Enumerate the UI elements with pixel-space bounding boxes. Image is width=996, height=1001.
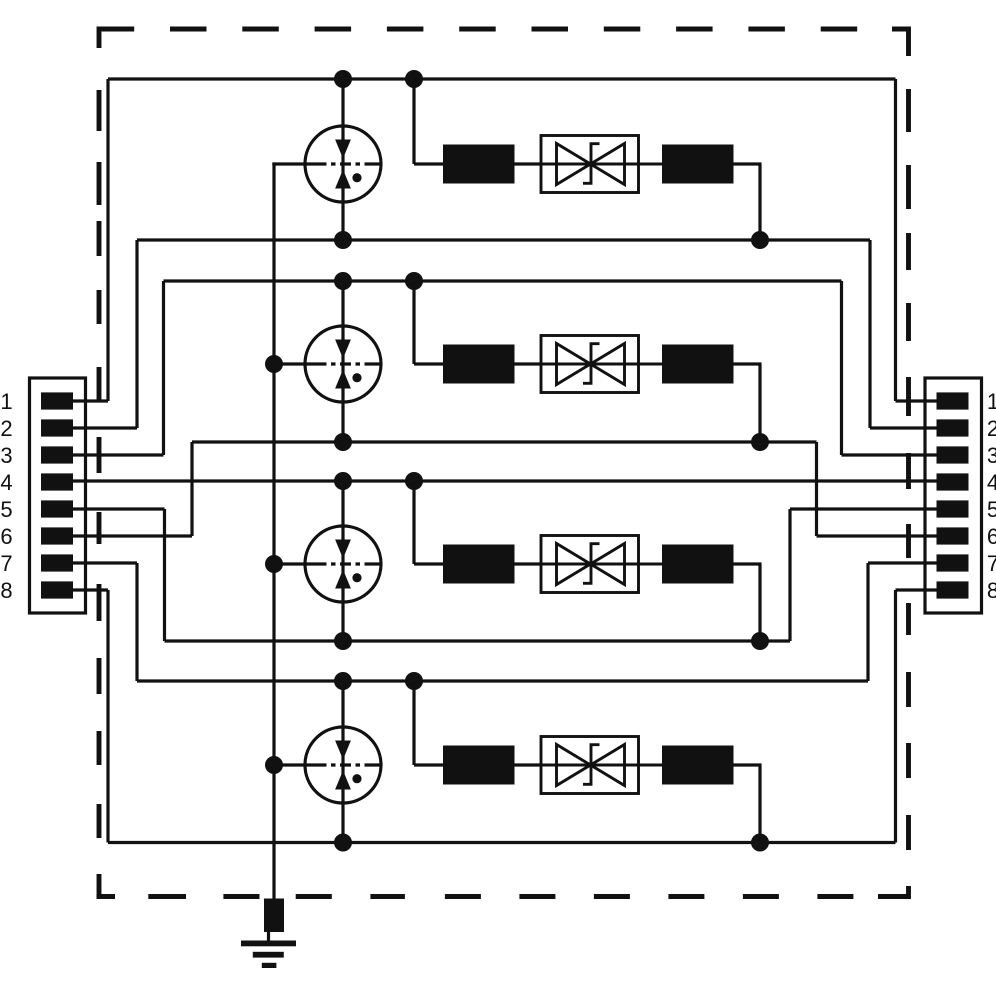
junction top rail / gas tube row 1	[334, 70, 352, 88]
wire series branch horizontal row 1	[414, 162, 443, 165]
resistor R1a (left series impedance)	[443, 145, 515, 184]
wire right pin 2 to rail (horizontal)	[870, 426, 937, 429]
junction top rail / gas tube row 3	[334, 472, 352, 490]
svg-text:1: 1	[987, 389, 996, 414]
resistor R4a (left series impedance)	[443, 746, 515, 785]
junction bottom rail / gas tube row 3	[334, 632, 352, 650]
wire right pin 7 riser (vertical)	[866, 563, 869, 681]
gas discharge tube F1 circle	[305, 126, 381, 202]
wire pair-4 top rail	[137, 679, 868, 682]
wire gas tube vertical row 4	[341, 681, 344, 843]
suppressor diode V1 through-wire	[541, 163, 662, 166]
wire left pin 2 to rail (horizontal)	[73, 426, 137, 429]
left connector pin 7 contact	[41, 554, 73, 571]
suppressor diode V4 box	[541, 737, 639, 794]
suppressor diode V3 right triangle	[591, 544, 625, 585]
wire pair-3 top rail	[73, 479, 937, 482]
wire series branch horizontal row 3	[414, 562, 443, 565]
dashed enclosure border (right)	[906, 89, 911, 850]
junction top rail / series branch row 4	[405, 672, 423, 690]
resistor R1b (right series impedance)	[662, 145, 734, 184]
wire resistor R1a to suppressor	[515, 162, 542, 165]
suppressor diode V1 center electrode with hooks	[583, 144, 600, 184]
junction bottom rail / gas tube row 4	[334, 834, 352, 852]
suppressor diode V2 box	[541, 336, 639, 393]
suppressor diode V1 left triangle	[557, 144, 591, 185]
dashed enclosure border (bottom)	[97, 894, 854, 899]
right connector J2 body	[925, 378, 982, 613]
wire right pin 5 riser (vertical)	[788, 509, 791, 641]
junction earth bus / row 2 electrode	[265, 355, 283, 373]
gas discharge tube F1 lower electrode arrow	[335, 170, 351, 189]
gas discharge tube F1 upper electrode arrow	[335, 140, 351, 159]
right connector pin 6 contact	[937, 527, 969, 544]
ground terminal block (filled rectangle)	[264, 899, 284, 933]
wire resistor R4b to bottom rail	[734, 765, 761, 843]
suppressor diode V4 center electrode with hooks	[583, 745, 600, 785]
junction top rail / gas tube row 4	[334, 672, 352, 690]
suppressor diode V3 box	[541, 536, 639, 593]
left connector pin 3 contact	[41, 446, 73, 463]
svg-text:7: 7	[987, 551, 996, 576]
svg-text:5: 5	[987, 497, 996, 522]
junction bottom rail / gas tube row 1	[334, 231, 352, 249]
gas discharge tube F3 circle	[305, 526, 381, 602]
dashed enclosure border (top)	[98, 27, 858, 32]
wire left pin 6 to rail (horizontal)	[73, 534, 192, 537]
junction bottom rail / series branch row 4	[751, 834, 769, 852]
left connector pin 8 contact	[41, 581, 73, 598]
earth ground symbol bar 2	[253, 952, 284, 958]
svg-text:4: 4	[987, 470, 996, 495]
wire right pin 2 riser (vertical)	[868, 240, 871, 428]
wire gas tube vertical row 3	[341, 481, 344, 641]
suppressor diode V4 left triangle	[557, 745, 591, 786]
wire left pin 1 riser (vertical)	[106, 79, 109, 401]
earth ground symbol bar 1	[241, 941, 296, 947]
wire right pin 3 to rail (horizontal)	[842, 453, 937, 456]
suppressor diode V3 through-wire	[541, 563, 662, 566]
dashed enclosure border (top-right corner)	[892, 29, 909, 56]
wire right pin 7 to rail (horizontal)	[868, 561, 937, 564]
wire right pin 6 to rail (horizontal)	[817, 534, 937, 537]
junction bottom rail / series branch row 2	[751, 433, 769, 451]
wire right pin 5 to rail (horizontal)	[790, 507, 937, 510]
gas discharge tube F2 circle	[305, 326, 381, 402]
wire ground electrode row 1 to earth bus	[272, 162, 306, 165]
wire left pin 8 to rail (horizontal)	[73, 588, 108, 591]
gas discharge tube F4 ground electrode dash-dot line	[307, 763, 381, 766]
gas discharge tube F2 ground electrode dash-dot line	[307, 362, 381, 365]
gas discharge tube F3 ignition-aid dot	[352, 573, 361, 582]
wire ground electrode row 4 to earth bus	[274, 763, 307, 766]
junction top rail / series branch row 1	[405, 70, 423, 88]
wire resistor R2b to bottom rail	[734, 364, 761, 442]
wire right pin 8 to rail (horizontal)	[896, 588, 937, 591]
wire gas tube vertical row 1	[341, 79, 344, 240]
right connector pin 5 contact	[937, 500, 969, 517]
gas discharge tube F2 lower electrode arrow	[335, 370, 351, 389]
junction bottom rail / series branch row 1	[751, 231, 769, 249]
wire pair-1 top rail	[108, 77, 896, 80]
gas discharge tube F3 lower electrode arrow	[335, 570, 351, 589]
right connector pin 7 contact	[937, 554, 969, 571]
suppressor diode V2 through-wire	[541, 363, 662, 366]
junction earth bus / row 3 electrode	[265, 555, 283, 573]
svg-text:4: 4	[0, 470, 12, 495]
wire left pin 8 riser (vertical)	[106, 590, 109, 843]
wire ground electrode row 3 to earth bus	[274, 562, 307, 565]
earth ground symbol bar 3	[262, 963, 277, 968]
left connector pin 2 contact	[41, 419, 73, 436]
wire ground electrode row 2 to earth bus	[274, 362, 307, 365]
svg-text:5: 5	[0, 497, 12, 522]
left connector pin 6 contact	[41, 527, 73, 544]
wire pair-2 top rail	[164, 279, 842, 282]
gas discharge tube F4 circle	[305, 727, 381, 803]
suppressor diode V4 through-wire	[541, 764, 662, 767]
wire left pin 3 riser (vertical)	[162, 281, 165, 455]
gas discharge tube F1 ignition-aid dot	[352, 173, 361, 182]
wire left pin 1 to rail (horizontal)	[73, 399, 108, 402]
wire left pin 3 to rail (horizontal)	[73, 453, 164, 456]
left connector pin 5 contact	[41, 500, 73, 517]
resistor R2a (left series impedance)	[443, 345, 515, 384]
svg-text:7: 7	[0, 551, 12, 576]
wire pair-1 bottom rail	[137, 238, 870, 241]
ground stub	[267, 932, 270, 942]
earth bus top corner to row1 electrode	[272, 162, 275, 165]
left connector pin 1 contact	[41, 392, 73, 409]
gas discharge tube F2 upper electrode arrow	[335, 340, 351, 359]
gas discharge tube F3 ground electrode dash-dot line	[307, 562, 381, 565]
suppressor diode V4 right triangle	[591, 745, 625, 786]
gas discharge tube F3 upper electrode arrow	[335, 540, 351, 559]
svg-text:3: 3	[987, 443, 996, 468]
wire series branch horizontal row 4	[414, 763, 443, 766]
svg-text:8: 8	[987, 578, 996, 603]
left connector J1 body	[30, 378, 86, 613]
wire resistor R1b to bottom rail	[734, 164, 761, 240]
wire pair-4 bottom rail	[108, 841, 896, 844]
dashed enclosure border (left)	[97, 27, 102, 895]
suppressor diode V2 center electrode with hooks	[583, 344, 600, 384]
right connector pin 3 contact	[937, 446, 969, 463]
wire series branch drop row 1	[412, 79, 415, 164]
junction top rail / series branch row 2	[405, 272, 423, 290]
right connector pin 4 contact	[937, 473, 969, 490]
wire left pin 5 riser (vertical)	[163, 509, 166, 641]
wire resistor R3a to suppressor	[515, 562, 542, 565]
svg-text:8: 8	[0, 578, 12, 603]
svg-text:1: 1	[0, 389, 12, 414]
wire pair-2 bottom rail	[192, 440, 817, 443]
gas discharge tube F4 upper electrode arrow	[335, 741, 351, 760]
junction earth bus / row 4 electrode	[265, 756, 283, 774]
gas discharge tube F1 ground electrode dash-dot line	[307, 162, 381, 165]
wire resistor R4a to suppressor	[515, 763, 542, 766]
gas discharge tube F4 lower electrode arrow	[335, 771, 351, 790]
right connector pin 8 contact	[937, 581, 969, 598]
wire left pin 7 riser (vertical)	[135, 563, 138, 681]
gas discharge tube F2 ignition-aid dot	[352, 373, 361, 382]
svg-text:6: 6	[0, 524, 12, 549]
wire series branch horizontal row 2	[414, 362, 443, 365]
wire right pin 6 riser (vertical)	[815, 442, 818, 536]
right connector pin 1 contact	[937, 392, 969, 409]
wire right pin 1 riser (vertical)	[894, 79, 897, 401]
svg-text:2: 2	[987, 416, 996, 441]
svg-text:2: 2	[0, 416, 12, 441]
suppressor diode V2 right triangle	[591, 344, 625, 385]
resistor R2b (right series impedance)	[662, 345, 734, 384]
right connector pin 2 contact	[937, 419, 969, 436]
junction top rail / series branch row 3	[405, 472, 423, 490]
wire left pin 7 to rail (horizontal)	[73, 561, 137, 564]
wire right pin 3 riser (vertical)	[840, 281, 843, 455]
wire series branch drop row 4	[412, 681, 415, 765]
wire gas tube vertical row 2	[341, 281, 344, 442]
left connector pin 4 contact	[41, 473, 73, 490]
wire series branch drop row 2	[412, 281, 415, 364]
wire right pin 1 to rail (horizontal)	[896, 399, 937, 402]
wire resistor R3b to bottom rail	[734, 564, 761, 641]
wire left pin 5 to rail (horizontal)	[73, 507, 165, 510]
wire resistor R2a to suppressor	[515, 362, 542, 365]
resistor R3b (right series impedance)	[662, 545, 734, 584]
svg-text:3: 3	[0, 443, 12, 468]
wire right pin 8 riser (vertical)	[894, 590, 897, 843]
suppressor diode V2 left triangle	[557, 344, 591, 385]
svg-text:6: 6	[987, 524, 996, 549]
dashed enclosure border (bottom-right corner)	[878, 886, 909, 897]
resistor R4b (right series impedance)	[662, 746, 734, 785]
gas discharge tube F4 ignition-aid dot	[352, 774, 361, 783]
suppressor diode V3 center electrode with hooks	[583, 544, 600, 584]
junction top rail / gas tube row 2	[334, 272, 352, 290]
wire series branch drop row 3	[412, 481, 415, 564]
suppressor diode V1 box	[541, 136, 639, 193]
suppressor diode V3 left triangle	[557, 544, 591, 585]
earth bus vertical	[272, 164, 275, 899]
junction bottom rail / gas tube row 2	[334, 433, 352, 451]
wire left pin 2 riser (vertical)	[135, 240, 138, 428]
suppressor diode V1 right triangle	[591, 144, 625, 185]
resistor R3a (left series impedance)	[443, 545, 515, 584]
junction bottom rail / series branch row 3	[751, 632, 769, 650]
wire pair-3 bottom rail	[165, 639, 791, 642]
wire left pin 6 riser (vertical)	[190, 442, 193, 536]
